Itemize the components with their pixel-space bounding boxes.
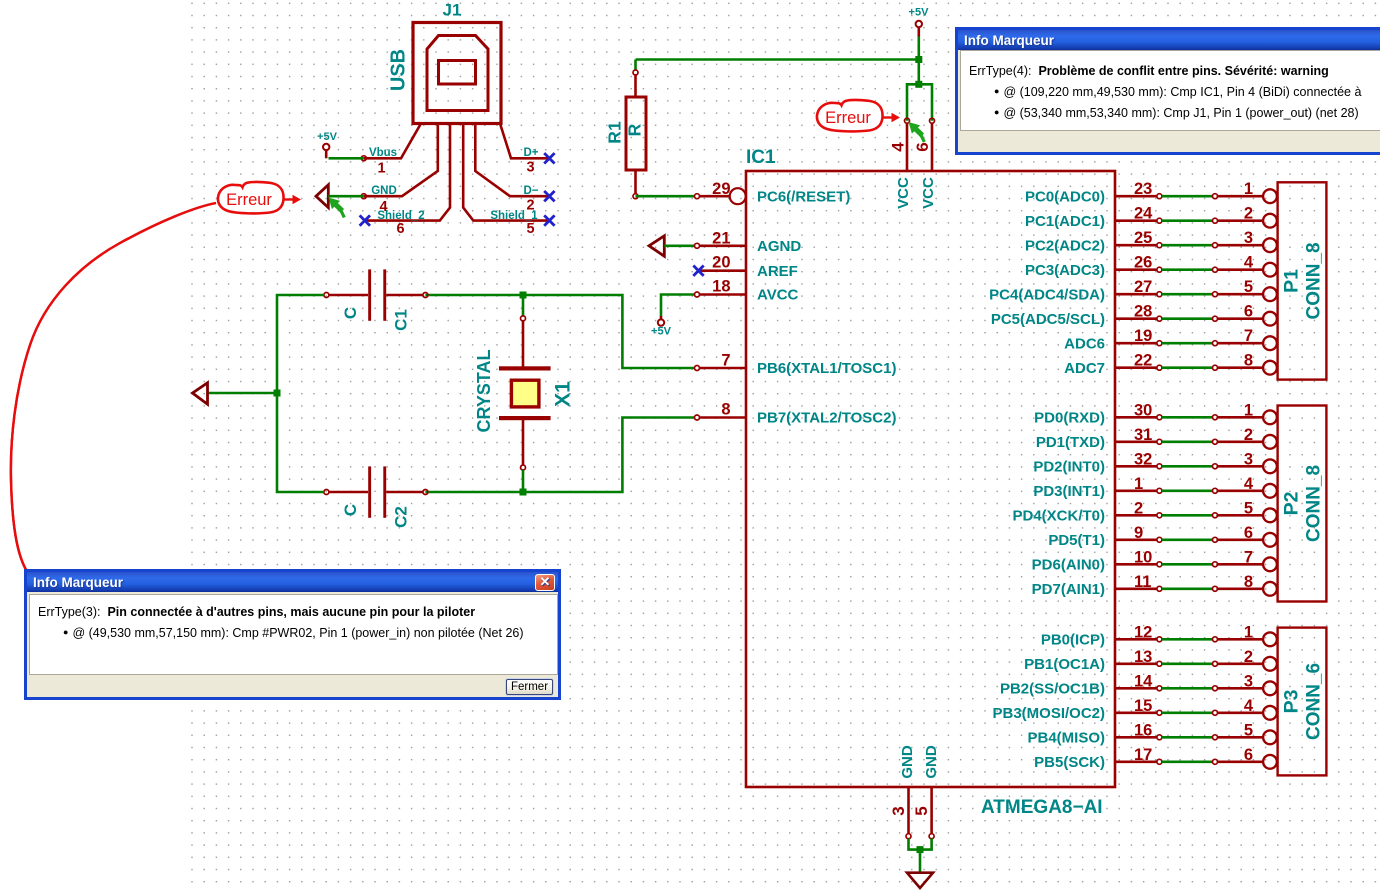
svg-text:26: 26 <box>1134 254 1152 272</box>
svg-text:23: 23 <box>1134 180 1152 198</box>
svg-text:+5V: +5V <box>317 131 338 143</box>
svg-text:PB6(XTAL1/TOSC1): PB6(XTAL1/TOSC1) <box>757 360 896 377</box>
svg-text:PC4(ADC4/SDA): PC4(ADC4/SDA) <box>989 287 1105 304</box>
svg-text:6: 6 <box>396 221 404 237</box>
svg-text:1: 1 <box>1244 401 1253 419</box>
svg-text:PD6(AIN0): PD6(AIN0) <box>1032 557 1105 574</box>
svg-text:PB3(MOSI/OC2): PB3(MOSI/OC2) <box>992 705 1105 722</box>
svg-text:30: 30 <box>1134 401 1152 419</box>
svg-text:8: 8 <box>1244 573 1253 591</box>
svg-text:R: R <box>625 123 645 136</box>
svg-text:R1: R1 <box>605 121 625 144</box>
svg-text:C: C <box>341 504 360 516</box>
svg-text:PD2(INT0): PD2(INT0) <box>1033 459 1105 476</box>
svg-text:2: 2 <box>526 198 534 214</box>
svg-text:4: 4 <box>379 199 387 215</box>
svg-text:1: 1 <box>1244 623 1253 641</box>
svg-text:21: 21 <box>712 230 730 248</box>
svg-text:4: 4 <box>1244 254 1254 272</box>
svg-text:Erreur: Erreur <box>226 191 272 209</box>
svg-text:6: 6 <box>1244 303 1253 321</box>
svg-text:12: 12 <box>1134 623 1152 641</box>
svg-text:PC3(ADC3): PC3(ADC3) <box>1025 262 1105 279</box>
svg-text:11: 11 <box>1134 573 1151 591</box>
svg-text:J1: J1 <box>443 1 462 20</box>
svg-text:2: 2 <box>1244 426 1253 444</box>
svg-text:8: 8 <box>721 401 730 419</box>
svg-text:1: 1 <box>1244 180 1253 198</box>
svg-text:PD4(XCK/T0): PD4(XCK/T0) <box>1012 508 1105 525</box>
svg-text:25: 25 <box>1134 229 1152 247</box>
svg-text:22: 22 <box>1134 352 1152 370</box>
svg-text:19: 19 <box>1134 327 1152 345</box>
svg-text:3: 3 <box>1244 229 1253 247</box>
svg-text:4: 4 <box>889 142 908 152</box>
svg-text:14: 14 <box>1134 672 1153 690</box>
svg-text:7: 7 <box>721 352 730 370</box>
svg-text:AGND: AGND <box>757 238 801 255</box>
svg-text:2: 2 <box>1134 499 1143 517</box>
svg-text:C: C <box>341 307 360 319</box>
svg-text:20: 20 <box>712 254 730 272</box>
svg-text:2: 2 <box>1244 648 1253 666</box>
svg-text:3: 3 <box>889 806 908 815</box>
svg-text:32: 32 <box>1134 450 1152 468</box>
svg-text:4: 4 <box>1244 697 1254 715</box>
svg-text:+5V: +5V <box>909 7 930 19</box>
svg-text:ADC7: ADC7 <box>1064 360 1105 377</box>
svg-text:5: 5 <box>1244 499 1253 517</box>
svg-text:16: 16 <box>1134 721 1152 739</box>
svg-text:31: 31 <box>1134 426 1152 444</box>
svg-text:24: 24 <box>1134 205 1153 223</box>
svg-text:PC6(/RESET): PC6(/RESET) <box>757 188 850 205</box>
svg-text:17: 17 <box>1134 746 1152 764</box>
svg-text:3: 3 <box>1244 672 1253 690</box>
svg-text:PC5(ADC5/SCL): PC5(ADC5/SCL) <box>991 311 1105 328</box>
svg-text:PD1(TXD): PD1(TXD) <box>1036 434 1105 451</box>
svg-text:PD3(INT1): PD3(INT1) <box>1033 483 1105 500</box>
svg-text:VCC: VCC <box>895 177 912 209</box>
svg-text:PB7(XTAL2/TOSC2): PB7(XTAL2/TOSC2) <box>757 410 896 427</box>
svg-text:9: 9 <box>1134 524 1143 542</box>
svg-text:1: 1 <box>377 161 385 177</box>
svg-text:5: 5 <box>1244 278 1253 296</box>
svg-text:13: 13 <box>1134 648 1152 666</box>
svg-text:18: 18 <box>712 278 730 296</box>
svg-text:5: 5 <box>1244 721 1253 739</box>
svg-text:PB2(SS/OC1B): PB2(SS/OC1B) <box>1000 681 1105 698</box>
svg-text:PB4(MISO): PB4(MISO) <box>1027 730 1105 747</box>
svg-text:8: 8 <box>1244 352 1253 370</box>
svg-text:PB1(OC1A): PB1(OC1A) <box>1024 656 1105 673</box>
svg-text:28: 28 <box>1134 303 1152 321</box>
svg-text:GND: GND <box>371 185 397 197</box>
svg-text:29: 29 <box>712 180 730 198</box>
svg-text:CONN_8: CONN_8 <box>1304 242 1325 319</box>
svg-text:IC1: IC1 <box>746 147 776 168</box>
svg-text:4: 4 <box>1244 475 1254 493</box>
svg-text:C2: C2 <box>392 506 411 528</box>
svg-text:ATMEGA8−AI: ATMEGA8−AI <box>981 797 1103 818</box>
svg-text:7: 7 <box>1244 327 1253 345</box>
svg-text:15: 15 <box>1134 697 1152 715</box>
svg-text:6: 6 <box>1244 524 1253 542</box>
svg-text:ADC6: ADC6 <box>1064 336 1105 353</box>
svg-text:7: 7 <box>1244 548 1253 566</box>
svg-text:C1: C1 <box>392 309 411 331</box>
svg-text:Erreur: Erreur <box>825 109 871 127</box>
svg-text:PD7(AIN1): PD7(AIN1) <box>1032 581 1105 598</box>
svg-text:+5V: +5V <box>651 326 672 338</box>
svg-text:6: 6 <box>1244 746 1253 764</box>
svg-text:AREF: AREF <box>757 263 798 280</box>
svg-text:PC0(ADC0): PC0(ADC0) <box>1025 189 1105 206</box>
svg-text:Vbus: Vbus <box>369 147 397 159</box>
svg-text:PC1(ADC1): PC1(ADC1) <box>1025 213 1105 230</box>
svg-text:1: 1 <box>1134 475 1143 493</box>
svg-text:X1: X1 <box>552 381 575 407</box>
svg-text:D−: D− <box>523 185 538 197</box>
svg-text:CONN_6: CONN_6 <box>1304 663 1325 740</box>
svg-text:USB: USB <box>388 49 410 91</box>
svg-text:D+: D+ <box>523 147 538 159</box>
svg-text:P2: P2 <box>1281 491 1303 515</box>
svg-text:CRYSTAL: CRYSTAL <box>474 350 494 433</box>
svg-text:3: 3 <box>1244 450 1253 468</box>
svg-text:P1: P1 <box>1281 269 1303 293</box>
svg-text:CONN_8: CONN_8 <box>1304 465 1325 542</box>
svg-text:PB0(ICP): PB0(ICP) <box>1041 632 1105 649</box>
svg-text:P3: P3 <box>1281 689 1303 713</box>
svg-text:GND: GND <box>899 745 916 779</box>
svg-text:3: 3 <box>526 160 534 176</box>
svg-text:27: 27 <box>1134 278 1152 296</box>
svg-text:2: 2 <box>1244 205 1253 223</box>
svg-text:PD5(T1): PD5(T1) <box>1048 532 1105 549</box>
svg-text:GND: GND <box>923 745 940 779</box>
svg-text:10: 10 <box>1134 548 1152 566</box>
svg-text:PC2(ADC2): PC2(ADC2) <box>1025 238 1105 255</box>
svg-text:PB5(SCK): PB5(SCK) <box>1034 754 1105 771</box>
svg-text:5: 5 <box>912 806 931 815</box>
svg-text:AVCC: AVCC <box>757 287 799 304</box>
svg-text:6: 6 <box>913 142 932 151</box>
svg-text:VCC: VCC <box>920 177 937 209</box>
svg-text:PD0(RXD): PD0(RXD) <box>1034 410 1105 427</box>
svg-text:5: 5 <box>526 221 534 237</box>
